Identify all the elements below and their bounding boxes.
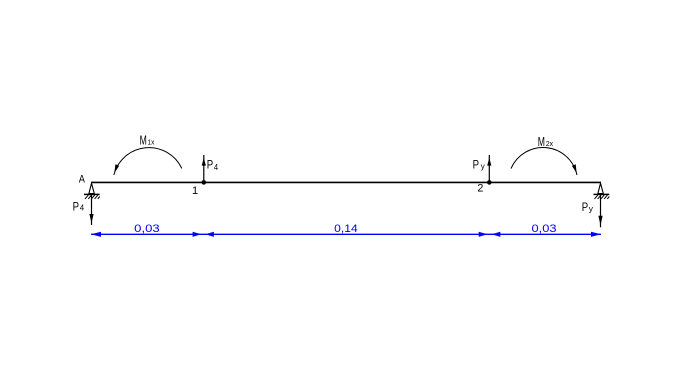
svg-text:1x: 1x xyxy=(148,138,155,147)
svg-text:P: P xyxy=(207,158,213,172)
svg-text:M: M xyxy=(140,133,147,148)
moment arc M2x (cw) xyxy=(511,134,577,175)
svg-text:4: 4 xyxy=(80,203,84,213)
svg-text:y: y xyxy=(481,161,486,171)
svg-text:4: 4 xyxy=(214,162,218,172)
node 1 xyxy=(202,180,207,185)
support B pin xyxy=(594,183,610,199)
svg-text:P: P xyxy=(473,157,479,171)
reaction arrow P4 at A (down) xyxy=(73,195,94,225)
svg-text:0,14: 0,14 xyxy=(334,223,358,235)
svg-text:0,03: 0,03 xyxy=(532,223,557,235)
svg-text:2x: 2x xyxy=(546,139,553,148)
wire beam A-1-2-B xyxy=(91,181,600,183)
moment arc M1x (ccw) xyxy=(114,133,182,175)
dimension line chain xyxy=(91,232,601,237)
svg-text:A: A xyxy=(79,173,86,185)
svg-text:2: 2 xyxy=(477,182,483,194)
force arrow Py at node 2 (up) xyxy=(473,155,492,182)
svg-text:0,03: 0,03 xyxy=(134,223,160,235)
node 2 xyxy=(487,180,492,185)
reaction arrow Py at B (down) xyxy=(582,195,603,227)
force arrow P4 at node 1 (up) xyxy=(202,155,219,182)
svg-text:P: P xyxy=(582,200,588,214)
svg-text:y: y xyxy=(589,203,594,213)
svg-text:M: M xyxy=(538,134,545,149)
support A pin xyxy=(84,183,100,199)
svg-text:P: P xyxy=(73,199,79,213)
svg-text:1: 1 xyxy=(192,185,198,197)
